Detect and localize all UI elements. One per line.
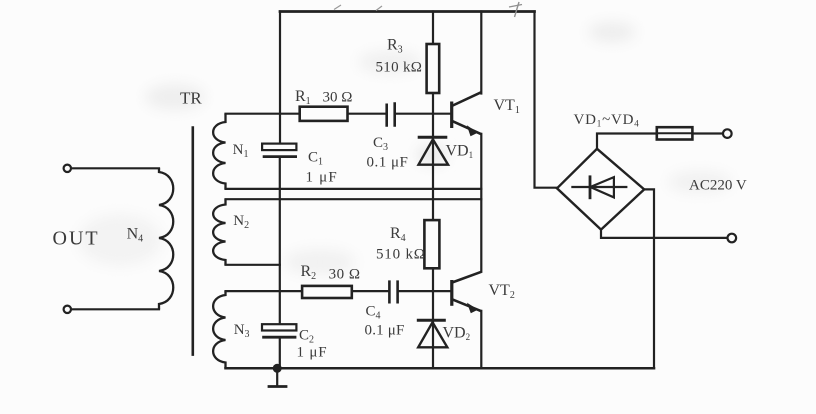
svg-text:R3: R3 — [387, 37, 403, 56]
svg-text:C3: C3 — [373, 135, 388, 153]
svg-text:C4: C4 — [366, 304, 381, 322]
svg-text:510 kΩ: 510 kΩ — [376, 60, 423, 76]
svg-text:AC220 V: AC220 V — [689, 178, 747, 194]
svg-text:30 Ω: 30 Ω — [323, 90, 353, 106]
svg-text:C2: C2 — [299, 328, 314, 346]
svg-text:N3: N3 — [234, 322, 250, 340]
svg-text:0.1 μF: 0.1 μF — [365, 323, 405, 339]
svg-text:0.1 μF: 0.1 μF — [367, 155, 409, 171]
svg-text:VD2: VD2 — [443, 325, 471, 343]
svg-text:C1: C1 — [308, 150, 323, 168]
svg-text:VD1~VD4: VD1~VD4 — [574, 112, 640, 129]
svg-text:VD1: VD1 — [446, 143, 474, 161]
svg-text:VT1: VT1 — [494, 97, 520, 116]
svg-text:OUT: OUT — [53, 228, 100, 250]
svg-text:30 Ω: 30 Ω — [329, 267, 361, 283]
svg-text:1 μF: 1 μF — [306, 170, 338, 186]
svg-text:N1: N1 — [233, 142, 249, 160]
svg-text:TR: TR — [180, 89, 202, 108]
svg-text:R1: R1 — [295, 88, 311, 107]
svg-text:VT2: VT2 — [489, 282, 515, 301]
svg-text:510 kΩ: 510 kΩ — [376, 247, 426, 263]
svg-text:N2: N2 — [233, 213, 249, 231]
svg-text:1 μF: 1 μF — [297, 345, 328, 361]
svg-text:R4: R4 — [390, 225, 406, 244]
